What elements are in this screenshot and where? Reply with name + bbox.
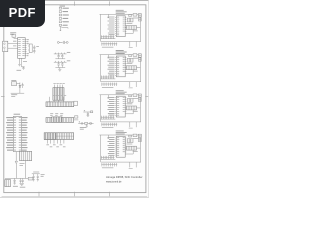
resistor right of SV2 — [74, 116, 79, 120]
capacitor C5 — [13, 178, 16, 184]
net port flag SV-D — [59, 18, 68, 20]
pin labels above SV1 — [53, 94, 66, 96]
connector X2 — [5, 180, 11, 187]
labels reset circuit — [11, 95, 17, 97]
capacitor C4 (reset) — [22, 83, 24, 88]
page right edge — [147, 0, 150, 198]
wire: bottom rail — [5, 177, 33, 179]
microcontroller IC2 — [13, 116, 21, 151]
net port flag SV-B — [59, 11, 68, 13]
wires: RN1 to header SV1 — [49, 97, 63, 102]
labels near T2 — [20, 164, 25, 166]
wire: stack drop with arrow — [60, 26, 62, 31]
connector end box SV1 — [74, 101, 78, 105]
wires: IC1 bottom — [20, 58, 25, 67]
wire: reset rail — [11, 92, 25, 94]
frame bottom outer line — [2, 195, 148, 197]
crystal Q1 — [57, 41, 68, 44]
transistor T1 — [28, 44, 32, 52]
pin labels below SV3 — [46, 145, 65, 147]
net labels left of IC2 — [6, 118, 13, 151]
wire: socket drop — [25, 161, 27, 179]
net labels right of IC2 — [22, 118, 28, 151]
capacitor pair CL1 — [54, 52, 71, 58]
label above reset circuit — [11, 80, 16, 82]
connector X1 (power jack) — [3, 41, 8, 51]
ground below CL2 — [58, 68, 61, 72]
resistor R5 (reset) — [12, 82, 20, 86]
capacitor C3 — [22, 67, 24, 70]
labels below power block — [17, 62, 28, 71]
channel block 1 (IC4) — [100, 10, 142, 47]
channel block 4 (IC7) — [100, 131, 142, 168]
jumper block on SV3 — [44, 133, 56, 140]
labels bottom left — [13, 185, 25, 188]
capacitor C2 — [33, 49, 35, 53]
pin header SV3 — [44, 133, 73, 140]
voltage regulator IC1 — [18, 38, 27, 59]
label IC2 — [14, 113, 21, 115]
socket/connector below IC2 — [20, 151, 32, 160]
labels above RN1 — [53, 82, 64, 84]
page background — [0, 0, 149, 198]
pin header SV1 — [46, 102, 74, 107]
svg-text:www.jnxmb.de: www.jnxmb.de — [106, 180, 122, 184]
electrolytic capacitor C10 circuit — [83, 110, 93, 116]
wire: stack branch right — [61, 28, 68, 29]
net port flag SV-A — [59, 7, 69, 9]
label above port stack — [60, 5, 66, 7]
net port flag SV-C — [59, 14, 69, 16]
crystal circuit Q2 group — [32, 172, 45, 181]
pin header SV2 — [46, 118, 74, 123]
label near C1/C2 — [36, 46, 39, 48]
ground GND1 — [18, 64, 21, 66]
jumper block on SV2 — [52, 117, 62, 122]
capacitor pair CL2 — [54, 61, 71, 68]
PDF badge — [0, 0, 45, 27]
page top edge — [0, 0, 149, 1]
capacitor C1 — [33, 45, 35, 49]
capacitor C6 pair — [19, 178, 24, 185]
net port flag SV-F — [59, 24, 67, 26]
net labels right of IC1 — [27, 40, 29, 56]
label row above SV2 — [50, 114, 63, 116]
schematic frame inner border — [4, 5, 146, 193]
channel block 2 (IC5) — [100, 51, 142, 88]
frame section tick marks — [1, 1, 148, 196]
fuse F1 — [12, 35, 18, 39]
wires: RN1 top pins — [55, 85, 63, 88]
wires: X1 to IC1 — [8, 43, 18, 48]
page bottom edge — [0, 197, 149, 198]
labels left of IC1 — [13, 41, 16, 46]
electrolytic capacitor C11 circuit — [78, 121, 93, 129]
diode D1 — [19, 82, 21, 91]
channel block 3 (IC6) — [100, 91, 142, 128]
resistor R6 — [28, 177, 33, 180]
wires: SV3 pins down — [47, 139, 64, 143]
transistor T2 — [15, 152, 17, 179]
resistor array RN1 (striped box) — [53, 88, 64, 101]
net port flag SV-E — [59, 21, 69, 23]
svg-text:Atmega DIP88, SNC Controller: Atmega DIP88, SNC Controller — [106, 175, 143, 179]
label IC1 (power block) — [10, 33, 16, 35]
